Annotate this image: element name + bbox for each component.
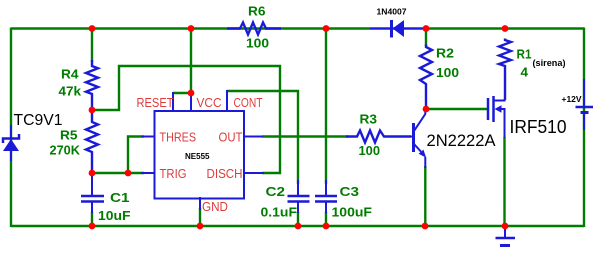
pin CONT — [226, 90, 228, 112]
wire TRIG node — [92, 172, 144, 174]
wire OUT to R3 — [262, 135, 348, 137]
resistor R2 — [420, 45, 432, 109]
pin TRIG — [141, 172, 155, 174]
node VCC pin — [188, 90, 195, 97]
svg-text:R5: R5 — [60, 129, 78, 143]
svg-text:100: 100 — [436, 66, 459, 80]
wire source to rail — [503, 137, 505, 227]
transistor Q1 2N2222A — [384, 110, 426, 168]
wire emitter to rail — [424, 166, 426, 227]
svg-text:R1: R1 — [517, 48, 532, 62]
wire R4-R5 junction to DISCH — [92, 66, 280, 173]
svg-text:TC9V1: TC9V1 — [14, 112, 63, 129]
node GND pin ground — [197, 223, 204, 230]
wire C3 feed — [325, 29, 327, 185]
svg-text:100: 100 — [359, 144, 381, 158]
wire top rail — [11, 27, 584, 29]
svg-text:C1: C1 — [110, 191, 130, 205]
wire collector node to gate — [426, 108, 488, 110]
node C1 ground — [89, 223, 96, 230]
svg-text:DISCH: DISCH — [207, 166, 243, 181]
pin VCC — [190, 92, 192, 112]
resistor R6 — [227, 23, 281, 35]
svg-text:1N4007: 1N4007 — [377, 8, 408, 17]
svg-text:10uF: 10uF — [98, 209, 131, 223]
pin DISCH — [244, 172, 264, 174]
zener D2 TC9V1 — [3, 125, 19, 161]
wire THRES loop — [128, 137, 144, 174]
wire VCC feed — [190, 29, 192, 94]
svg-text:R4: R4 — [61, 68, 79, 82]
resistor R1 — [499, 39, 511, 101]
pin GND — [199, 197, 201, 210]
wire C1 bottom — [91, 212, 93, 227]
battery B1 +12V — [576, 79, 594, 130]
node emitter ground — [422, 223, 429, 230]
wire CONT to C2 — [227, 91, 298, 184]
svg-text:R2: R2 — [436, 47, 454, 61]
svg-text:2N2222A: 2N2222A — [427, 131, 497, 150]
svg-text:TRIG: TRIG — [160, 166, 187, 181]
node R2 bottom — [423, 106, 430, 113]
transistor M1 IRF510 — [488, 96, 505, 138]
node source ground — [502, 223, 509, 230]
resistor R4 — [86, 60, 98, 108]
svg-text:100uF: 100uF — [332, 206, 373, 220]
svg-text:RESET: RESET — [137, 95, 174, 110]
svg-text:0.1uF: 0.1uF — [261, 206, 298, 220]
pin THRES — [141, 136, 155, 138]
wire left rail — [10, 28, 12, 228]
wire R2 feed — [425, 29, 427, 47]
pin OUT — [244, 136, 263, 138]
capacitor C1 — [81, 173, 104, 213]
wire C3 bottom — [325, 212, 327, 227]
svg-text:GND: GND — [202, 199, 228, 214]
svg-text:OUT: OUT — [219, 130, 243, 145]
resistor R3 — [346, 131, 411, 143]
wire right rail — [583, 28, 585, 228]
node TRIG left — [89, 170, 96, 177]
svg-text:C2: C2 — [266, 185, 286, 199]
node top VCC — [188, 25, 195, 32]
svg-text:R3: R3 — [360, 113, 378, 127]
svg-text:270K: 270K — [50, 144, 81, 158]
svg-text:R6: R6 — [248, 5, 266, 19]
pin RESET — [172, 92, 174, 112]
svg-text:(sirena): (sirena) — [533, 58, 566, 69]
svg-text:47k: 47k — [59, 85, 82, 99]
capacitor C3 — [315, 180, 337, 213]
wire R4 feed — [91, 29, 93, 63]
diode D1 1N4007 — [370, 20, 424, 38]
wire GND pin — [199, 208, 201, 227]
svg-text:+12V: +12V — [562, 94, 582, 104]
node top C3 — [323, 25, 330, 32]
capacitor C2 — [288, 180, 310, 213]
resistor R5 — [86, 112, 98, 171]
wire RESET tie — [173, 92, 191, 94]
svg-text:CONT: CONT — [234, 95, 263, 110]
svg-text:C3: C3 — [340, 185, 360, 199]
svg-text:IRF510: IRF510 — [510, 117, 567, 137]
ground — [496, 226, 516, 246]
node R4-R5 — [89, 107, 96, 114]
wire bottom rail — [11, 225, 584, 227]
wire C2 bottom — [297, 212, 299, 227]
node C3 ground — [323, 223, 330, 230]
svg-text:NE555: NE555 — [185, 151, 210, 161]
node C2 ground — [295, 223, 302, 230]
node TRIG right — [125, 170, 132, 177]
node top R4 — [89, 25, 96, 32]
node top R1 — [502, 25, 509, 32]
svg-text:THRES: THRES — [160, 130, 197, 145]
svg-text:VCC: VCC — [197, 95, 222, 110]
svg-text:100: 100 — [246, 37, 269, 51]
svg-text:4: 4 — [521, 66, 529, 80]
node top R2 — [423, 25, 430, 32]
op-amp U1 NE555 box — [155, 111, 245, 199]
